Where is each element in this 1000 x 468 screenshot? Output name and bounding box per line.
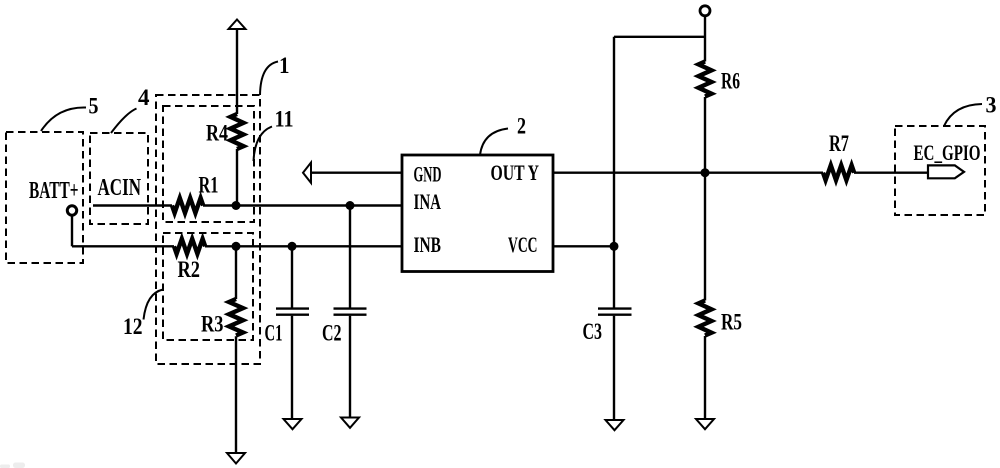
- terminal BATT+ circle: [67, 206, 76, 215]
- leader line for 3: [944, 104, 982, 126]
- wire: R7 to EC_GPIO connector: [854, 171, 928, 173]
- wire: R4 bottom to INA node: [236, 149, 238, 206]
- resistor R1: [172, 198, 203, 213]
- leader line for 12: [144, 290, 164, 320]
- node: junction R2/R3: [232, 242, 241, 251]
- ground under R3: [227, 453, 245, 464]
- svg-text:BATT+: BATT+: [29, 178, 79, 204]
- wire: OUT Y to R7: [553, 171, 823, 173]
- wire: C2 to ground: [349, 316, 351, 418]
- leader line for 11: [254, 127, 273, 162]
- svg-text:C3: C3: [583, 319, 603, 344]
- resistor R3: [229, 299, 243, 336]
- resistor R7: [823, 165, 854, 180]
- svg-text:C1: C1: [265, 321, 283, 346]
- leader line for 4: [111, 109, 137, 134]
- resistor R4: [231, 114, 244, 149]
- wire: C3 branch vertical: [613, 37, 615, 308]
- wire: C1 top: [291, 246, 293, 307]
- wire: C2 top from INA node: [349, 206, 351, 308]
- svg-text:VCC: VCC: [508, 232, 538, 257]
- faint page artifact bottom-left: [0, 463, 25, 468]
- node: junction C2/INA: [346, 201, 355, 210]
- svg-text:12: 12: [123, 314, 143, 339]
- svg-text:3: 3: [986, 93, 997, 118]
- wire: C1 to ground: [291, 316, 293, 419]
- svg-text:R2: R2: [178, 257, 201, 282]
- wire: R3 to ground: [235, 336, 237, 453]
- node: junction R1/R4: [232, 201, 241, 210]
- wire: node to R3: [235, 246, 237, 299]
- ground under C3: [606, 420, 624, 430]
- leader line for 2: [480, 129, 508, 156]
- svg-text:R1: R1: [199, 173, 219, 198]
- svg-text:1: 1: [279, 53, 290, 78]
- svg-text:EC_GPIO: EC_GPIO: [914, 140, 981, 165]
- svg-text:GND: GND: [414, 162, 442, 187]
- wire: R6 to R5: [704, 97, 706, 301]
- resistor R5: [699, 301, 712, 336]
- svg-text:R7: R7: [829, 131, 849, 156]
- svg-text:INB: INB: [414, 232, 442, 257]
- dashed box 5 (BATT+ block): [6, 132, 83, 263]
- capacitor C3: [598, 309, 632, 315]
- wire: BATT+ to R2: [72, 245, 174, 247]
- leader line for 5: [41, 107, 86, 131]
- ground under C2: [341, 418, 359, 428]
- ground under C1: [284, 419, 302, 429]
- svg-text:R6: R6: [721, 69, 740, 94]
- dashed box 11 (upper divider): [163, 106, 254, 222]
- op-amp U1 comparator box 2: [402, 155, 553, 272]
- svg-text:INA: INA: [414, 189, 442, 214]
- arrow up at top of R4 branch: [229, 20, 246, 30]
- wire: GND pin to left arrow: [310, 171, 402, 173]
- wire: ACIN to R1: [93, 204, 172, 206]
- svg-text:R3: R3: [201, 312, 224, 337]
- capacitor C1: [276, 309, 309, 315]
- wire: R1 to chip INA: [203, 204, 402, 206]
- node: junction C1/INB: [288, 242, 297, 251]
- resistor R2: [174, 239, 205, 254]
- svg-text:2: 2: [517, 114, 526, 139]
- capacitor C2: [334, 309, 367, 315]
- leader line for 1: [260, 62, 278, 96]
- svg-text:ACIN: ACIN: [98, 175, 142, 201]
- svg-text:R4: R4: [206, 121, 228, 146]
- terminal circle top right: [700, 6, 710, 16]
- svg-text:5: 5: [89, 94, 99, 119]
- wire: R2 to chip INB: [205, 245, 402, 247]
- wire: BATT+ down: [71, 215, 73, 246]
- svg-text:R5: R5: [721, 310, 742, 335]
- dashed box 3 (EC_GPIO block): [895, 126, 985, 215]
- wire: terminal to R6: [704, 16, 706, 62]
- arrow left on GND line: [303, 163, 311, 183]
- node: junction VCC/C3: [610, 242, 619, 251]
- wire: C3 to ground: [613, 316, 615, 420]
- wire: VCC pin to C3 line: [553, 245, 614, 247]
- wire: R5 to ground: [704, 336, 706, 419]
- connector EC_GPIO flag: [928, 165, 964, 178]
- svg-text:4: 4: [138, 85, 150, 110]
- node: junction OUT/R6/R5: [701, 168, 710, 177]
- dashed box 4 (ACIN block): [90, 133, 148, 224]
- dashed box 12 (lower divider): [163, 233, 253, 340]
- ground under R5: [696, 419, 714, 429]
- resistor R6: [699, 62, 712, 97]
- dashed box 1 (outer divider block): [156, 95, 260, 364]
- svg-text:11: 11: [275, 107, 294, 132]
- svg-text:OUT Y: OUT Y: [491, 160, 540, 185]
- svg-text:C2: C2: [322, 321, 342, 346]
- wire: top link C3 branch to supply terminal: [614, 36, 705, 38]
- wire: top supply stub above R4: [236, 28, 238, 114]
